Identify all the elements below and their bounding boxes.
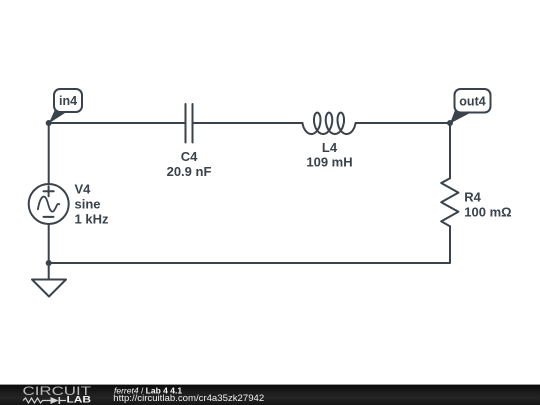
inductor L4 value label 109 mH: [306, 155, 352, 170]
CircuitLab logo diode symbol: [51, 397, 61, 404]
ground symbol: [32, 263, 66, 297]
CircuitLab logo diode wire: [60, 400, 66, 402]
CircuitLab logo CIRCUIT text: [23, 384, 92, 398]
voltage source V4 circle: [29, 184, 69, 224]
ground junction dot: [46, 260, 52, 266]
resistor R4 value label 100 mOhm: [464, 205, 511, 220]
svg-text:C4: C4: [181, 149, 198, 164]
wire right rail (out4 node down to R4 top): [449, 123, 451, 178]
node out4 callout box: [455, 89, 491, 113]
resistor R4 name label: [464, 190, 481, 205]
V4 minus sign: [44, 216, 54, 218]
inductor L4: [303, 113, 356, 134]
V4 plus sign: [44, 186, 54, 196]
capacitor C4: [186, 104, 193, 143]
node in4 callout box: [54, 89, 82, 112]
node out4 label text: [459, 95, 485, 109]
voltage source V4 type label sine: [75, 197, 101, 212]
svg-text:L4: L4: [322, 140, 338, 155]
footer title text ferret4 / Lab 4 4.1: [114, 386, 182, 396]
svg-text:V4: V4: [75, 182, 92, 197]
footer url text: [113, 393, 264, 404]
V4 sine wave: [38, 197, 59, 212]
voltage source V4 value label 1 kHz: [75, 212, 109, 227]
svg-text:in4: in4: [59, 94, 77, 108]
node in4 junction dot: [46, 120, 52, 126]
wire bottom rail (ground junction to R4 bottom): [49, 226, 450, 263]
wire top rail middle (C4 right plate to L4): [193, 122, 303, 124]
capacitor C4 value label 20.9 nF: [167, 164, 212, 179]
wire top rail right (L4 to out4 node): [356, 122, 451, 124]
svg-text:sine: sine: [75, 197, 101, 212]
node in4 callout tail: [49, 110, 67, 124]
node out4 callout tail: [450, 110, 471, 124]
svg-text:100 mΩ: 100 mΩ: [464, 205, 511, 220]
inductor L4 name label: [322, 140, 338, 155]
svg-text:LAB: LAB: [67, 395, 92, 405]
capacitor C4 name label: [181, 149, 198, 164]
svg-text:http://circuitlab.com/cr4a35zk: http://circuitlab.com/cr4a35zk27942: [113, 393, 264, 404]
footer bar: [0, 385, 540, 405]
wire left rail (in4 node down to V4 top): [48, 123, 50, 184]
wire top rail left (in4 node to C4 left plate): [49, 122, 186, 124]
svg-text:109 mH: 109 mH: [306, 155, 352, 170]
svg-text:R4: R4: [464, 190, 481, 205]
svg-text:20.9 nF: 20.9 nF: [167, 164, 212, 179]
resistor R4: [441, 178, 458, 226]
voltage source V4 name label: [75, 182, 92, 197]
wire V4 bottom to ground junction: [48, 224, 50, 263]
node in4 label text: [59, 94, 77, 108]
node out4 junction dot: [447, 120, 453, 126]
CircuitLab logo LAB text: [67, 395, 92, 405]
svg-text:1 kHz: 1 kHz: [75, 212, 109, 227]
CircuitLab logo resistor squiggle: [23, 398, 51, 403]
svg-text:out4: out4: [459, 95, 485, 109]
